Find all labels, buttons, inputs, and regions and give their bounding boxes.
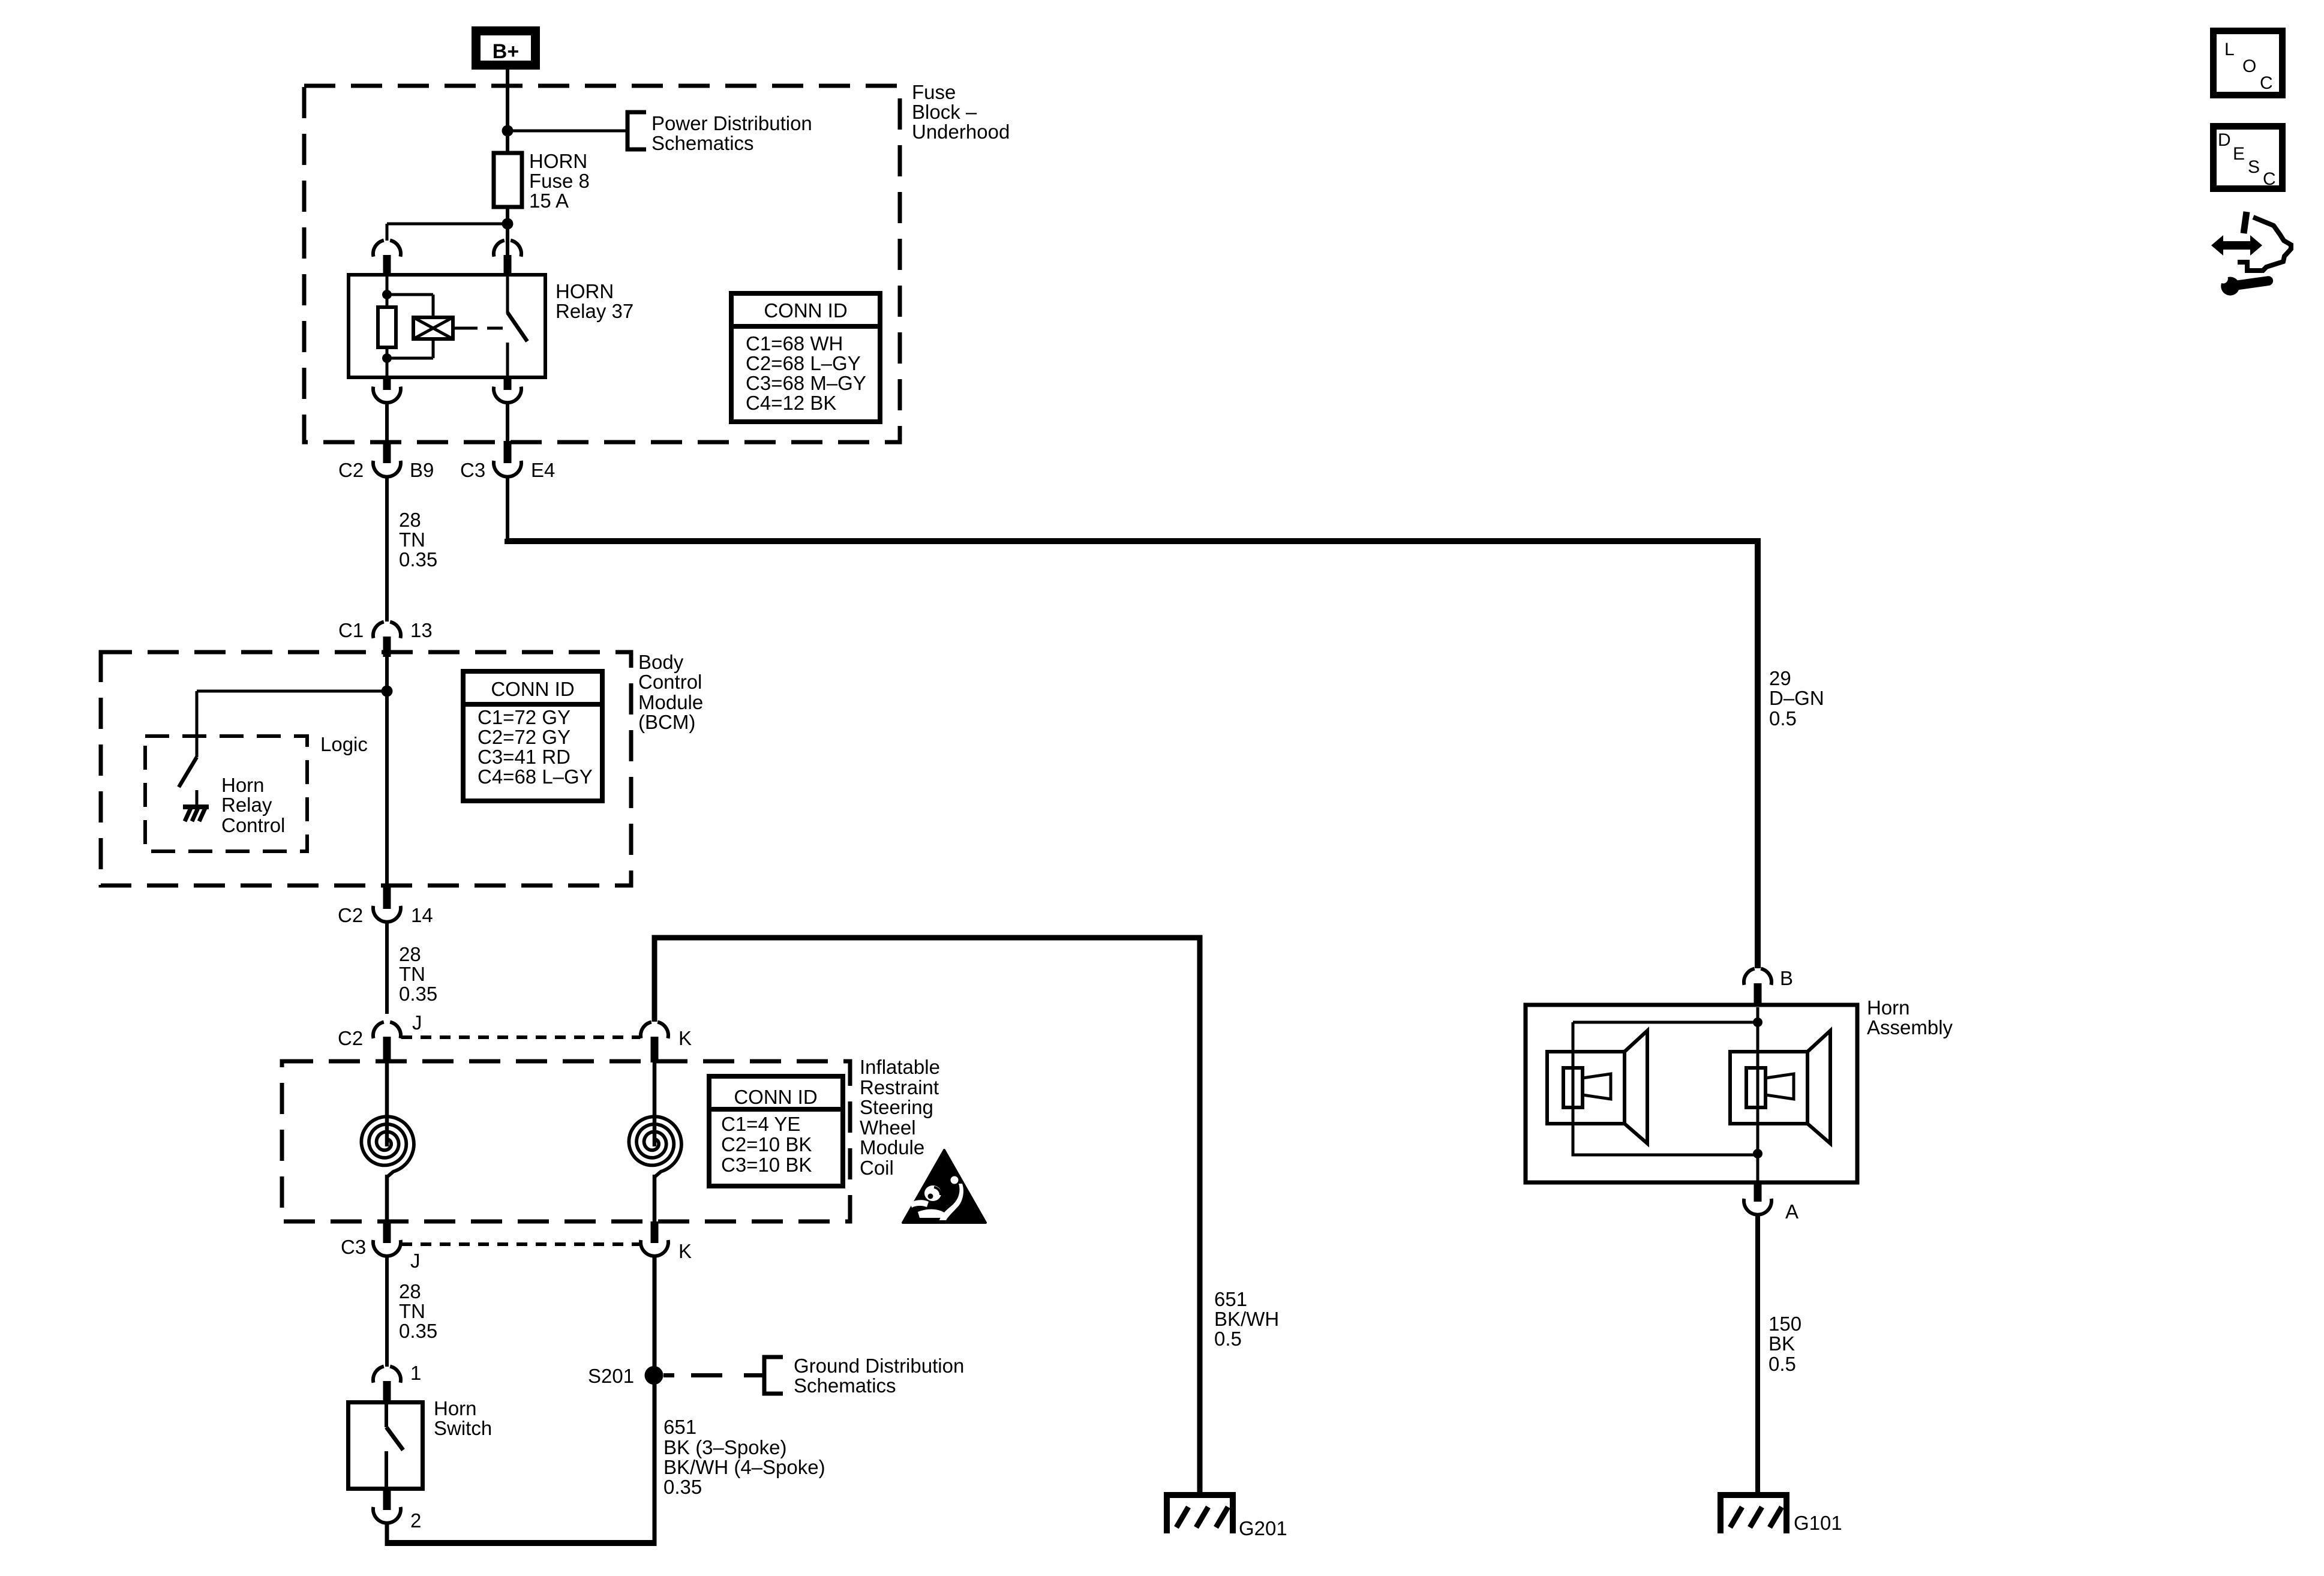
svg-text:S: S — [2248, 157, 2260, 177]
svg-text:J: J — [410, 1250, 421, 1272]
svg-text:(BCM): (BCM) — [638, 711, 695, 733]
svg-text:B+: B+ — [493, 40, 519, 63]
svg-text:0.35: 0.35 — [399, 548, 437, 571]
svg-text:CONN ID: CONN ID — [764, 299, 847, 322]
svg-text:Module: Module — [860, 1136, 924, 1158]
svg-text:14: 14 — [411, 904, 433, 926]
svg-text:Relay 37: Relay 37 — [556, 300, 633, 322]
svg-text:13: 13 — [410, 619, 433, 641]
svg-text:Wheel: Wheel — [860, 1116, 916, 1139]
svg-text:Module: Module — [638, 691, 703, 713]
svg-text:B: B — [1780, 967, 1793, 989]
svg-text:Body: Body — [638, 651, 684, 673]
svg-text:Horn: Horn — [1867, 996, 1910, 1019]
svg-text:Underhood: Underhood — [912, 121, 1010, 143]
svg-text:Control: Control — [221, 814, 285, 836]
svg-text:C1: C1 — [338, 619, 364, 641]
svg-text:0.5: 0.5 — [1769, 707, 1797, 730]
svg-text:J: J — [412, 1011, 422, 1034]
svg-text:C1=4 YE: C1=4 YE — [721, 1113, 800, 1135]
svg-text:0.35: 0.35 — [399, 1320, 437, 1342]
svg-text:Block –: Block – — [912, 101, 977, 123]
svg-text:HORN: HORN — [556, 280, 614, 302]
svg-text:BK (3–Spoke): BK (3–Spoke) — [663, 1436, 786, 1458]
svg-text:C4=68 L–GY: C4=68 L–GY — [478, 766, 593, 788]
svg-text:C2: C2 — [338, 904, 363, 926]
svg-text:C2=68 L–GY: C2=68 L–GY — [746, 352, 861, 374]
svg-text:Logic: Logic — [320, 733, 368, 755]
svg-text:G101: G101 — [1794, 1512, 1842, 1534]
svg-text:Fuse 8: Fuse 8 — [529, 170, 590, 192]
svg-text:Assembly: Assembly — [1867, 1016, 1953, 1038]
svg-text:C: C — [2263, 169, 2276, 189]
svg-text:0.35: 0.35 — [663, 1476, 702, 1498]
svg-text:28: 28 — [399, 509, 421, 531]
svg-text:K: K — [678, 1240, 692, 1262]
svg-text:Schematics: Schematics — [794, 1374, 896, 1397]
svg-text:C3=41 RD: C3=41 RD — [478, 746, 571, 768]
svg-text:28: 28 — [399, 1280, 421, 1302]
svg-text:TN: TN — [399, 963, 425, 985]
svg-text:150: 150 — [1768, 1313, 1801, 1335]
svg-text:Coil: Coil — [860, 1157, 894, 1179]
svg-text:C3: C3 — [460, 459, 485, 481]
svg-text:28: 28 — [399, 943, 421, 965]
svg-text:A: A — [1785, 1200, 1798, 1223]
svg-text:HORN: HORN — [529, 150, 587, 172]
svg-text:BK/WH: BK/WH — [1214, 1308, 1279, 1330]
svg-text:Ground Distribution: Ground Distribution — [794, 1355, 964, 1377]
svg-text:C4=12 BK: C4=12 BK — [746, 392, 836, 414]
svg-text:Horn: Horn — [221, 774, 265, 796]
svg-text:S201: S201 — [588, 1365, 634, 1387]
svg-text:0.35: 0.35 — [399, 983, 437, 1005]
svg-text:B9: B9 — [410, 459, 434, 481]
svg-text:G201: G201 — [1239, 1517, 1287, 1539]
svg-text:Relay: Relay — [221, 794, 272, 816]
svg-text:C1=68 WH: C1=68 WH — [746, 332, 843, 355]
svg-text:Schematics: Schematics — [651, 132, 754, 154]
svg-text:C3=68 M–GY: C3=68 M–GY — [746, 372, 866, 394]
svg-text:C2: C2 — [338, 1027, 363, 1049]
svg-text:Steering: Steering — [860, 1096, 933, 1118]
svg-text:Inflatable: Inflatable — [860, 1056, 940, 1078]
svg-text:K: K — [678, 1027, 692, 1049]
svg-text:2: 2 — [410, 1509, 421, 1532]
svg-text:0.5: 0.5 — [1214, 1328, 1242, 1350]
svg-text:C2=72 GY: C2=72 GY — [478, 726, 571, 748]
svg-text:Restraint: Restraint — [860, 1076, 939, 1098]
svg-text:E: E — [2233, 144, 2245, 164]
svg-text:Switch: Switch — [434, 1417, 492, 1439]
svg-text:Control: Control — [638, 671, 702, 693]
svg-text:CONN ID: CONN ID — [734, 1086, 817, 1108]
svg-text:C2=10 BK: C2=10 BK — [721, 1133, 812, 1155]
svg-text:O: O — [2242, 56, 2256, 76]
svg-text:D: D — [2218, 130, 2231, 150]
svg-text:C: C — [2260, 73, 2273, 93]
svg-text:TN: TN — [399, 529, 425, 551]
svg-text:E4: E4 — [531, 459, 555, 481]
svg-text:C2: C2 — [338, 459, 364, 481]
svg-text:CONN ID: CONN ID — [491, 678, 574, 700]
svg-text:1: 1 — [410, 1362, 421, 1384]
svg-text:C3=10 BK: C3=10 BK — [721, 1154, 812, 1176]
svg-text:Fuse: Fuse — [912, 81, 956, 103]
svg-text:D–GN: D–GN — [1769, 687, 1824, 709]
svg-text:C3: C3 — [341, 1236, 366, 1258]
svg-text:29: 29 — [1769, 667, 1791, 689]
svg-text:BK/WH (4–Spoke): BK/WH (4–Spoke) — [663, 1456, 825, 1478]
svg-text:15 A: 15 A — [529, 190, 569, 212]
svg-text:0.5: 0.5 — [1768, 1353, 1796, 1375]
svg-text:651: 651 — [1214, 1288, 1247, 1310]
svg-text:C1=72 GY: C1=72 GY — [478, 706, 571, 728]
svg-text:Power Distribution: Power Distribution — [651, 112, 812, 134]
svg-text:L: L — [2224, 40, 2235, 59]
svg-text:TN: TN — [399, 1300, 425, 1322]
svg-text:Horn: Horn — [434, 1397, 477, 1419]
svg-text:651: 651 — [663, 1416, 696, 1438]
svg-text:BK: BK — [1768, 1332, 1795, 1355]
